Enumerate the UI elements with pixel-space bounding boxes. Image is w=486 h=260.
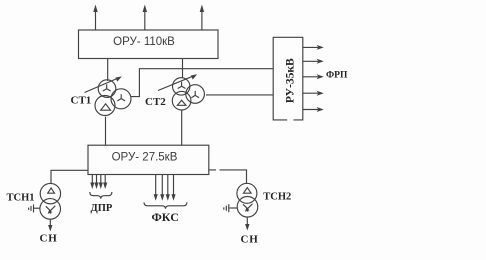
svg-text:ДПР: ДПР <box>91 203 113 214</box>
bus ОРУ-27.5кВ <box>88 145 209 174</box>
feeder arrow up 2 <box>143 5 147 31</box>
ДПР feeder 3 <box>99 175 103 190</box>
transformer ТСН1 <box>40 183 61 219</box>
ФКС feeder 4 <box>171 175 175 201</box>
svg-text:ОРУ- 110кВ: ОРУ- 110кВ <box>113 36 175 48</box>
rail connection ТСН2 <box>224 204 237 212</box>
wire ОРУ-27.5кВ to ТСН2 <box>209 170 247 184</box>
outgoing arrow 1 <box>303 45 324 50</box>
bus ОРУ-110кВ <box>79 30 219 59</box>
svg-text:СН: СН <box>40 233 58 245</box>
svg-text:ОРУ- 27.5кВ: ОРУ- 27.5кВ <box>112 151 178 163</box>
svg-text:СТ2: СТ2 <box>145 96 166 108</box>
ДПР feeder 2 <box>94 175 98 190</box>
wire CT2 to ОРУ-27.5кВ <box>181 110 183 145</box>
svg-text:ТСН1: ТСН1 <box>7 192 35 203</box>
outgoing arrow 4 <box>303 91 324 96</box>
wire CT2 35kV to РУ-35кВ <box>206 94 273 96</box>
rail connection ТСН1 <box>29 204 41 212</box>
wire ОРУ-27.5кВ to ТСН1 <box>51 170 88 184</box>
svg-text:СТ1: СТ1 <box>71 94 92 106</box>
svg-text:ТСН2: ТСН2 <box>263 192 291 203</box>
wire 110kV to CT1 <box>107 59 109 82</box>
switchgear РУ-35кВ <box>273 37 303 120</box>
feeder arrow up 3 <box>200 5 204 31</box>
transformer CT2 <box>158 74 204 110</box>
svg-text:ФРП: ФРП <box>326 71 348 81</box>
wire CT1 to ОРУ-27.5кВ <box>105 117 107 146</box>
svg-text:РУ-35кВ: РУ-35кВ <box>285 58 297 103</box>
transformer CT1 <box>85 76 132 115</box>
ФКС feeder 2 <box>160 175 164 201</box>
ФКС feeder 1 <box>154 175 158 201</box>
outgoing arrow 2 <box>303 59 324 64</box>
ДПР feeder 4 <box>103 175 107 190</box>
transformer ТСН2 <box>237 183 258 217</box>
outgoing arrow 3 <box>303 74 324 79</box>
ФКС feeder 3 <box>166 175 170 201</box>
brace ФКС <box>144 202 187 208</box>
brace ДПР <box>90 192 112 199</box>
ДПР feeder 1 <box>90 175 94 190</box>
svg-text:ФКС: ФКС <box>152 210 179 224</box>
arrow ТСН2 to СН <box>245 217 249 230</box>
feeder arrow up 1 <box>93 5 97 31</box>
outgoing arrow 5 <box>303 107 324 112</box>
arrow ТСН1 to СН <box>48 219 52 231</box>
wire CT1 35kV to РУ-35кВ <box>131 69 273 97</box>
svg-text:СН: СН <box>241 234 259 246</box>
wire 110kV to CT2 <box>182 59 184 79</box>
